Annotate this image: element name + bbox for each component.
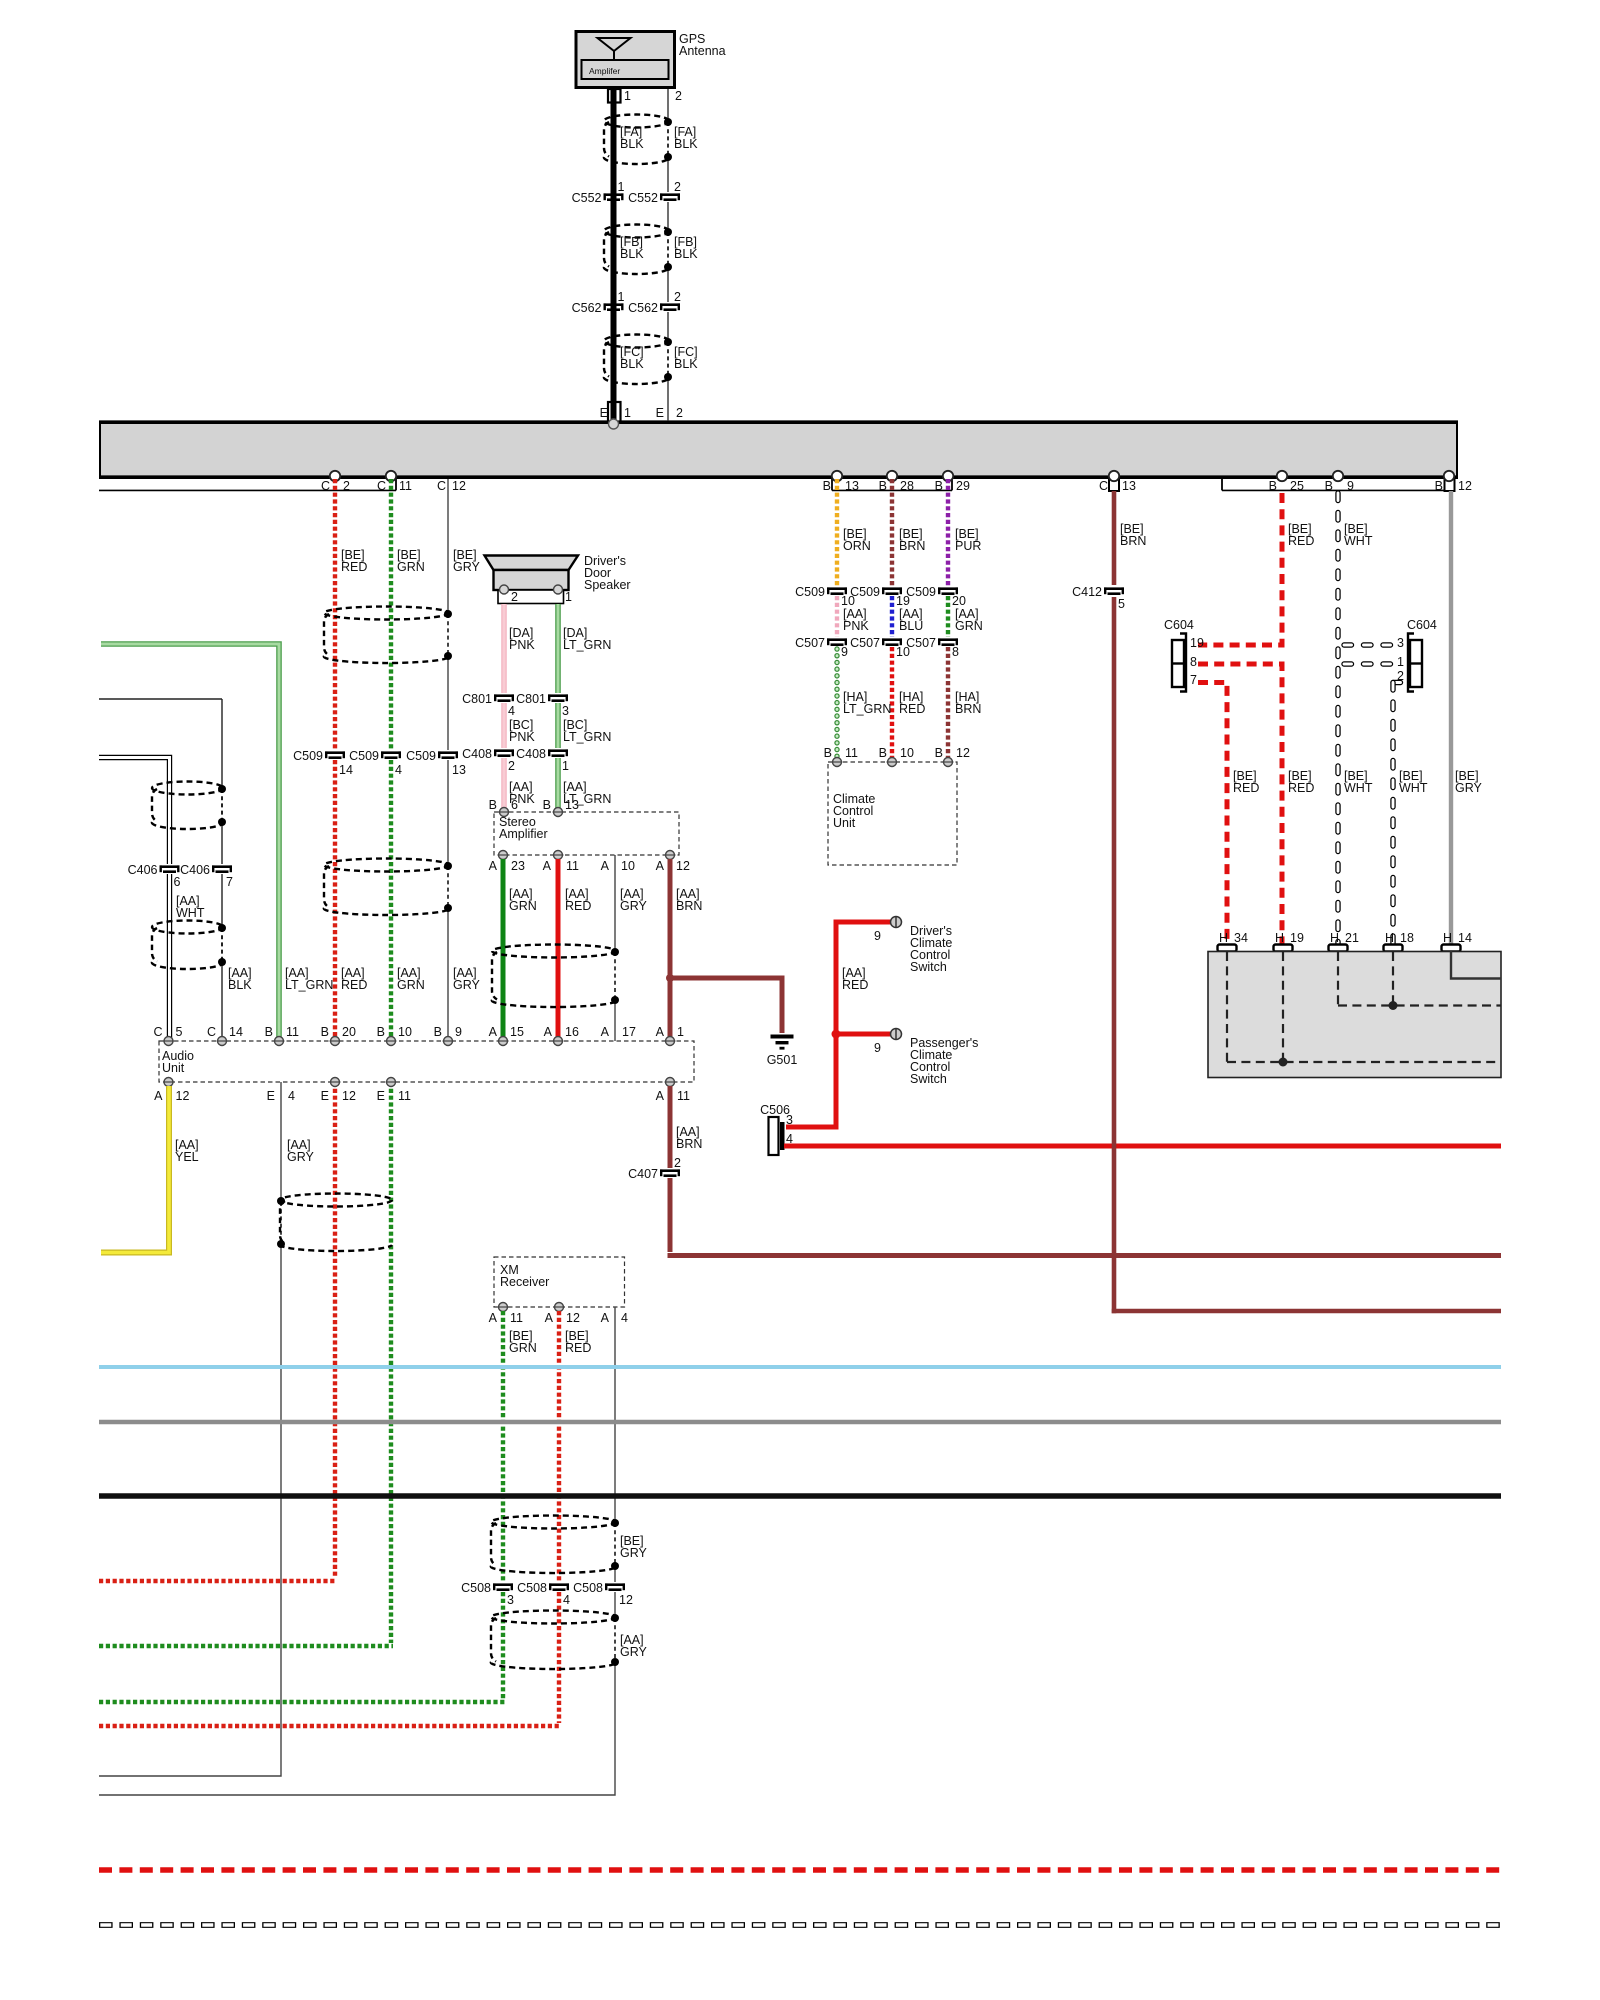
svg-text:2: 2 xyxy=(674,290,681,304)
svg-text:B: B xyxy=(935,479,943,493)
svg-text:17: 17 xyxy=(622,1025,636,1039)
svg-text:A: A xyxy=(545,1311,554,1325)
svg-text:9: 9 xyxy=(841,645,848,659)
svg-text:GRY: GRY xyxy=(620,1546,648,1560)
svg-text:H: H xyxy=(1443,931,1452,945)
svg-text:20: 20 xyxy=(952,594,966,608)
svg-text:C509: C509 xyxy=(406,749,436,763)
svg-text:C509: C509 xyxy=(349,749,379,763)
svg-text:C408: C408 xyxy=(462,747,492,761)
svg-text:1: 1 xyxy=(624,89,631,103)
svg-text:5: 5 xyxy=(1118,597,1125,611)
svg-text:2: 2 xyxy=(343,479,350,493)
svg-text:GRY: GRY xyxy=(453,560,481,574)
svg-text:C604: C604 xyxy=(1407,618,1437,632)
svg-text:BLK: BLK xyxy=(674,247,698,261)
svg-text:Receiver: Receiver xyxy=(500,1275,549,1289)
svg-text:11: 11 xyxy=(845,746,858,760)
svg-text:GRN: GRN xyxy=(509,899,537,913)
svg-text:3: 3 xyxy=(1397,636,1404,650)
svg-text:E: E xyxy=(600,406,608,420)
svg-text:E: E xyxy=(267,1089,275,1103)
svg-text:LT_GRN: LT_GRN xyxy=(563,730,611,744)
svg-text:B: B xyxy=(823,479,831,493)
svg-text:12: 12 xyxy=(1458,479,1472,493)
svg-text:A: A xyxy=(489,859,498,873)
svg-text:13: 13 xyxy=(565,798,579,812)
svg-text:6: 6 xyxy=(174,875,181,889)
svg-text:C: C xyxy=(153,1025,162,1039)
svg-text:RED: RED xyxy=(842,978,868,992)
svg-text:16: 16 xyxy=(565,1025,579,1039)
svg-text:BLK: BLK xyxy=(674,137,698,151)
svg-text:BLU: BLU xyxy=(899,619,923,633)
svg-text:3: 3 xyxy=(507,1593,514,1607)
svg-text:YEL: YEL xyxy=(175,1150,199,1164)
svg-text:BLK: BLK xyxy=(620,357,644,371)
svg-text:12: 12 xyxy=(566,1311,580,1325)
svg-text:C507: C507 xyxy=(906,636,936,650)
svg-text:LT_GRN: LT_GRN xyxy=(285,978,333,992)
svg-text:14: 14 xyxy=(229,1025,243,1039)
svg-text:C508: C508 xyxy=(573,1581,603,1595)
svg-text:GRY: GRY xyxy=(287,1150,315,1164)
svg-text:C: C xyxy=(207,1025,216,1039)
svg-text:2: 2 xyxy=(511,590,518,604)
svg-text:RED: RED xyxy=(565,1341,591,1355)
svg-text:12: 12 xyxy=(676,859,690,873)
svg-text:21: 21 xyxy=(1345,931,1359,945)
svg-text:C406: C406 xyxy=(128,863,158,877)
svg-text:C552: C552 xyxy=(628,191,658,205)
svg-text:4: 4 xyxy=(288,1089,295,1103)
svg-text:C: C xyxy=(321,479,330,493)
svg-text:E: E xyxy=(321,1089,329,1103)
svg-text:WHT: WHT xyxy=(1399,781,1428,795)
svg-text:A: A xyxy=(601,859,610,873)
svg-text:GRN: GRN xyxy=(955,619,983,633)
svg-text:H: H xyxy=(1385,931,1394,945)
svg-text:RED: RED xyxy=(341,978,367,992)
svg-text:WHT: WHT xyxy=(1344,781,1373,795)
svg-text:11: 11 xyxy=(399,479,412,493)
svg-text:7: 7 xyxy=(226,875,233,889)
svg-text:8: 8 xyxy=(952,645,959,659)
svg-text:C509: C509 xyxy=(850,585,880,599)
svg-text:RED: RED xyxy=(1288,534,1314,548)
svg-text:C801: C801 xyxy=(516,692,546,706)
svg-text:GRY: GRY xyxy=(453,978,481,992)
svg-text:14: 14 xyxy=(1458,931,1472,945)
svg-text:C562: C562 xyxy=(572,301,602,315)
svg-text:1: 1 xyxy=(562,759,569,773)
svg-text:11: 11 xyxy=(510,1311,523,1325)
svg-text:4: 4 xyxy=(395,763,402,777)
svg-text:15: 15 xyxy=(510,1025,524,1039)
svg-text:A: A xyxy=(656,859,665,873)
svg-text:9: 9 xyxy=(1347,479,1354,493)
svg-text:1: 1 xyxy=(624,406,631,420)
svg-text:19: 19 xyxy=(1190,636,1204,650)
svg-text:9: 9 xyxy=(874,929,881,943)
svg-text:C408: C408 xyxy=(516,747,546,761)
svg-text:9: 9 xyxy=(455,1025,462,1039)
svg-text:A: A xyxy=(489,1025,498,1039)
svg-text:10: 10 xyxy=(621,859,635,873)
svg-text:1: 1 xyxy=(677,1025,684,1039)
svg-text:B: B xyxy=(265,1025,273,1039)
svg-text:18: 18 xyxy=(1400,931,1414,945)
svg-text:C604: C604 xyxy=(1164,618,1194,632)
svg-text:GRY: GRY xyxy=(620,899,648,913)
svg-text:C509: C509 xyxy=(906,585,936,599)
svg-text:2: 2 xyxy=(676,406,683,420)
svg-text:11: 11 xyxy=(398,1089,411,1103)
svg-text:2: 2 xyxy=(1397,669,1404,683)
svg-text:B: B xyxy=(377,1025,385,1039)
svg-text:PUR: PUR xyxy=(955,539,981,553)
svg-text:C508: C508 xyxy=(517,1581,547,1595)
svg-text:23: 23 xyxy=(511,859,525,873)
svg-text:BLK: BLK xyxy=(620,247,644,261)
svg-text:5: 5 xyxy=(176,1025,183,1039)
svg-text:A: A xyxy=(544,1025,553,1039)
svg-text:LT_GRN: LT_GRN xyxy=(843,702,891,716)
svg-text:C507: C507 xyxy=(850,636,880,650)
svg-text:PNK: PNK xyxy=(843,619,869,633)
svg-text:B: B xyxy=(543,798,551,812)
svg-text:C412: C412 xyxy=(1072,585,1102,599)
svg-text:BRN: BRN xyxy=(899,539,925,553)
svg-text:RED: RED xyxy=(341,560,367,574)
svg-text:GRN: GRN xyxy=(509,1341,537,1355)
svg-text:6: 6 xyxy=(511,798,518,812)
svg-text:PNK: PNK xyxy=(509,638,535,652)
svg-text:11: 11 xyxy=(286,1025,299,1039)
svg-text:BRN: BRN xyxy=(676,1137,702,1151)
svg-text:4: 4 xyxy=(563,1593,570,1607)
svg-text:GRY: GRY xyxy=(620,1645,648,1659)
svg-text:BRN: BRN xyxy=(1120,534,1146,548)
svg-text:1: 1 xyxy=(565,590,572,604)
svg-text:Switch: Switch xyxy=(910,1072,947,1086)
svg-text:B: B xyxy=(1325,479,1333,493)
svg-text:GRN: GRN xyxy=(397,978,425,992)
svg-text:B: B xyxy=(1269,479,1277,493)
svg-text:A: A xyxy=(601,1025,610,1039)
svg-text:PNK: PNK xyxy=(509,730,535,744)
svg-text:H: H xyxy=(1330,931,1339,945)
svg-text:2: 2 xyxy=(674,180,681,194)
svg-text:A: A xyxy=(601,1311,610,1325)
svg-text:9: 9 xyxy=(874,1041,881,1055)
svg-text:14: 14 xyxy=(339,763,353,777)
svg-text:2: 2 xyxy=(675,89,682,103)
svg-text:A: A xyxy=(489,1311,498,1325)
svg-text:Switch: Switch xyxy=(910,960,947,974)
svg-text:B: B xyxy=(935,746,943,760)
svg-text:RED: RED xyxy=(1233,781,1259,795)
svg-text:BLK: BLK xyxy=(674,357,698,371)
svg-text:28: 28 xyxy=(900,479,914,493)
svg-text:A: A xyxy=(543,859,552,873)
svg-text:H: H xyxy=(1219,931,1228,945)
svg-text:1: 1 xyxy=(618,180,625,194)
svg-text:29: 29 xyxy=(956,479,970,493)
svg-text:BRN: BRN xyxy=(955,702,981,716)
svg-text:H: H xyxy=(1275,931,1284,945)
svg-text:1: 1 xyxy=(618,290,625,304)
svg-text:RED: RED xyxy=(1288,781,1314,795)
svg-text:C: C xyxy=(437,479,446,493)
svg-text:C407: C407 xyxy=(628,1167,658,1181)
svg-text:B: B xyxy=(1435,479,1443,493)
svg-text:Amplifier: Amplifier xyxy=(499,827,548,841)
svg-text:11: 11 xyxy=(566,859,579,873)
svg-text:C509: C509 xyxy=(293,749,323,763)
svg-text:12: 12 xyxy=(342,1089,356,1103)
svg-text:C508: C508 xyxy=(461,1581,491,1595)
svg-text:Unit: Unit xyxy=(162,1061,185,1075)
svg-text:RED: RED xyxy=(899,702,925,716)
svg-text:Antenna: Antenna xyxy=(679,44,726,58)
svg-text:BLK: BLK xyxy=(620,137,644,151)
svg-text:12: 12 xyxy=(176,1089,190,1103)
svg-text:34: 34 xyxy=(1234,931,1248,945)
svg-text:20: 20 xyxy=(342,1025,356,1039)
svg-text:B: B xyxy=(321,1025,329,1039)
svg-text:3: 3 xyxy=(562,704,569,718)
svg-text:25: 25 xyxy=(1290,479,1304,493)
svg-text:ORN: ORN xyxy=(843,539,871,553)
svg-text:LT_GRN: LT_GRN xyxy=(563,638,611,652)
svg-text:13: 13 xyxy=(452,763,466,777)
svg-text:B: B xyxy=(489,798,497,812)
svg-text:RED: RED xyxy=(565,899,591,913)
svg-text:B: B xyxy=(879,479,887,493)
svg-text:3: 3 xyxy=(786,1113,793,1127)
svg-text:12: 12 xyxy=(452,479,466,493)
svg-text:11: 11 xyxy=(677,1089,690,1103)
svg-text:C562: C562 xyxy=(628,301,658,315)
svg-text:B: B xyxy=(434,1025,442,1039)
svg-text:GRY: GRY xyxy=(1455,781,1483,795)
svg-text:A: A xyxy=(656,1025,665,1039)
svg-text:10: 10 xyxy=(398,1025,412,1039)
svg-text:C509: C509 xyxy=(795,585,825,599)
svg-text:WHT: WHT xyxy=(176,906,205,920)
svg-text:19: 19 xyxy=(1290,931,1304,945)
svg-text:C801: C801 xyxy=(462,692,492,706)
svg-text:C: C xyxy=(377,479,386,493)
svg-text:A: A xyxy=(656,1089,665,1103)
svg-text:13: 13 xyxy=(1122,479,1136,493)
svg-text:Speaker: Speaker xyxy=(584,578,631,592)
svg-text:C: C xyxy=(1099,479,1108,493)
svg-text:E: E xyxy=(377,1089,385,1103)
svg-text:GRN: GRN xyxy=(397,560,425,574)
svg-text:2: 2 xyxy=(674,1156,681,1170)
svg-text:12: 12 xyxy=(619,1593,633,1607)
svg-text:BLK: BLK xyxy=(228,978,252,992)
svg-text:C406: C406 xyxy=(180,863,210,877)
svg-text:1: 1 xyxy=(1397,655,1404,669)
svg-text:B: B xyxy=(824,746,832,760)
svg-text:C552: C552 xyxy=(572,191,602,205)
svg-text:Unit: Unit xyxy=(833,816,856,830)
svg-text:B: B xyxy=(879,746,887,760)
svg-text:12: 12 xyxy=(956,746,970,760)
svg-text:7: 7 xyxy=(1190,673,1197,687)
svg-text:4: 4 xyxy=(508,704,515,718)
svg-text:G501: G501 xyxy=(767,1053,798,1067)
svg-text:10: 10 xyxy=(900,746,914,760)
svg-text:2: 2 xyxy=(508,759,515,773)
svg-text:E: E xyxy=(656,406,664,420)
svg-text:4: 4 xyxy=(621,1311,628,1325)
svg-text:C507: C507 xyxy=(795,636,825,650)
svg-text:Amplifer: Amplifer xyxy=(589,66,620,76)
svg-text:13: 13 xyxy=(845,479,859,493)
svg-text:A: A xyxy=(154,1089,163,1103)
svg-text:BRN: BRN xyxy=(676,899,702,913)
svg-text:8: 8 xyxy=(1190,655,1197,669)
svg-text:WHT: WHT xyxy=(1344,534,1373,548)
